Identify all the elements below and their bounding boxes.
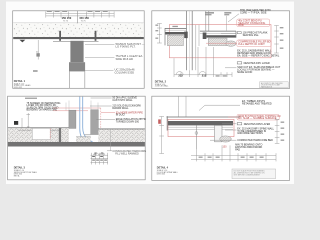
spec text block	[27, 102, 61, 112]
right floor line	[98, 128, 145, 130]
note text 1	[116, 42, 145, 49]
thin wall lines above	[66, 101, 98, 111]
red note 2	[206, 42, 236, 44]
small vertical dim	[22, 113, 30, 128]
black note 4	[235, 144, 262, 152]
svg-text:JOINT AT WALL: JOINT AT WALL	[155, 85, 169, 88]
red note 1	[237, 19, 270, 27]
svg-text:EA. SIDE — REFER TO ENG. DETAI: EA. SIDE — REFER TO ENG. DETAIL	[237, 55, 280, 58]
central wall / joint	[186, 11, 192, 70]
svg-text:DWARF WALL: DWARF WALL	[112, 107, 129, 110]
svg-text:DENOTES DPM LAYER: DENOTES DPM LAYER	[244, 123, 271, 126]
svg-text:150 150: 150 150	[79, 16, 89, 20]
ground hatch left	[8, 128, 69, 142]
top-right black note	[240, 9, 271, 14]
hanger rod with label	[37, 40, 39, 60]
svg-text:MAKE GOOD: MAKE GOOD	[237, 71, 252, 74]
top dimension string	[46, 11, 115, 17]
svg-text:DETAIL 2: DETAIL 2	[155, 79, 167, 83]
blue pipe	[80, 97, 91, 146]
svg-text:75 75: 75 75	[81, 21, 87, 23]
left end plate	[166, 116, 168, 130]
grey post	[59, 128, 61, 145]
bottom dimension string	[91, 153, 109, 165]
svg-text:DETAIL 4: DETAIL 4	[157, 166, 169, 170]
svg-text:DETAIL 3: DETAIL 3	[14, 166, 26, 170]
note box bottom right	[260, 82, 289, 88]
svg-text:215: 215	[202, 73, 207, 77]
red revision rectangle	[168, 119, 234, 136]
left wall stub	[69, 110, 76, 128]
svg-text:ROD: ROD	[238, 24, 244, 27]
note text 3	[115, 68, 136, 75]
svg-text:DWG 352: DWG 352	[14, 87, 22, 89]
insulation blob	[220, 136, 232, 142]
column base widening	[69, 62, 85, 71]
svg-text:COMPACTED HARDCORE BED: COMPACTED HARDCORE BED	[237, 139, 273, 142]
note text 2	[116, 54, 143, 61]
vertical lines from top	[177, 97, 179, 117]
svg-text:BLINDING ON HARDCORE: BLINDING ON HARDCORE	[27, 109, 58, 112]
small top labels	[205, 12, 231, 15]
leader lines	[85, 45, 115, 71]
left vertical dimension	[157, 24, 162, 44]
svg-text:FABRICATION: FABRICATION	[261, 86, 273, 89]
right end wall	[215, 125, 223, 141]
pipe kicker line	[84, 134, 91, 136]
svg-text:CAST INTO WALL: CAST INTO WALL	[112, 99, 133, 102]
detail 4 frame	[152, 96, 290, 180]
svg-text:150 150: 150 150	[62, 16, 72, 20]
red leaders from text	[53, 107, 101, 109]
page background	[0, 0, 300, 187]
red revision rectangle	[169, 25, 271, 58]
right vertical dimension	[274, 26, 279, 54]
ground hatch right	[98, 129, 145, 142]
column below (outline)	[69, 71, 84, 88]
bottom dimension string	[174, 47, 232, 77]
hanger rod with circle	[195, 125, 197, 149]
svg-text:EX. SLAB — SCABBLE SURFACE: EX. SLAB — SCABBLE SURFACE	[238, 117, 276, 120]
svg-text:150: 150	[222, 146, 227, 149]
svg-text:75 75: 75 75	[63, 21, 69, 23]
column (grey)	[70, 41, 83, 62]
right slab build-up	[200, 31, 236, 46]
concrete slab with speckle	[13, 23, 144, 38]
black square marker	[14, 121, 18, 125]
svg-text:REV A: REV A	[14, 174, 20, 177]
centre line of column	[77, 11, 79, 23]
soffit plate line	[53, 40, 99, 42]
svg-text:LG FIXING PLT.: LG FIXING PLT.	[116, 45, 136, 49]
black note 5	[237, 66, 281, 74]
svg-text:DENOTES DPC LAYER: DENOTES DPC LAYER	[244, 62, 270, 65]
small top label	[25, 98, 37, 99]
black note 2	[237, 32, 241, 34]
slab soffit line	[13, 37, 144, 39]
bottom dimension string	[191, 145, 276, 161]
trench hatch between walls	[76, 137, 91, 142]
svg-text:SITE BEFORE COMMENCEMENT: SITE BEFORE COMMENCEMENT	[234, 175, 260, 177]
dim text small (above line)	[47, 11, 108, 12]
paper sheet	[6, 2, 294, 185]
svg-text:COLUMN S355: COLUMN S355	[115, 70, 135, 74]
top-right black note	[242, 100, 272, 105]
black note 4 with icon	[237, 62, 242, 64]
spot marker triangle	[20, 40, 26, 43]
svg-text:DWG 355: DWG 355	[157, 174, 165, 176]
slab assembly	[167, 116, 241, 118]
svg-text:FILL WELL RAMMED: FILL WELL RAMMED	[115, 153, 139, 156]
trench white box	[32, 128, 50, 139]
svg-text:CORE — TYP EA. SIDE: CORE — TYP EA. SIDE	[240, 11, 267, 14]
svg-text:DETAIL 1: DETAIL 1	[14, 79, 26, 83]
svg-text:1000 WIDE SECTIONS: 1000 WIDE SECTIONS	[237, 132, 263, 135]
svg-text:SEATING 2No.: SEATING 2No.	[243, 34, 260, 37]
insulation blob	[226, 41, 236, 46]
floor second line segments	[18, 129, 32, 131]
extension line	[109, 129, 111, 151]
left vertical dim	[159, 117, 164, 154]
svg-text:SIDE M16 HD: SIDE M16 HD	[116, 57, 134, 61]
left slab build-up	[165, 28, 188, 45]
note under band right	[107, 150, 112, 152]
dark grey band (slab)	[8, 142, 145, 147]
note box bottom right	[232, 169, 276, 179]
svg-text:215: 215	[178, 73, 183, 77]
right vertical dim	[275, 119, 280, 143]
right notes	[112, 96, 137, 101]
detail 3 frame	[8, 96, 146, 180]
svg-text:FULL DEPTH OF JOINT: FULL DEPTH OF JOINT	[238, 43, 265, 46]
right wall stub	[91, 110, 99, 135]
red note 1	[237, 114, 279, 120]
detail 1 frame	[13, 11, 145, 89]
embed plate posts at soffit	[59, 31, 61, 41]
black note 2	[237, 127, 274, 135]
small label above title	[33, 70, 38, 72]
black note 3	[237, 50, 280, 58]
black note + icon	[237, 123, 242, 125]
left floor line	[8, 127, 69, 129]
detail 2 frame	[152, 11, 290, 89]
svg-text:IN DUCT: IN DUCT	[116, 114, 126, 117]
top leader	[205, 104, 240, 106]
svg-text:PAD: PAD	[235, 148, 240, 151]
svg-text:TURNED DOWN 300: TURNED DOWN 300	[116, 121, 140, 124]
svg-text:RETAINED AND TREATED: RETAINED AND TREATED	[242, 103, 272, 106]
